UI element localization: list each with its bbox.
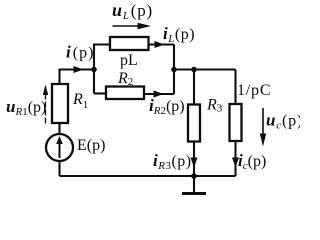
svg-text:iL(p): iL(p) — [163, 24, 195, 45]
node B dot — [171, 67, 177, 73]
arrow iL(p) — [155, 41, 165, 48]
arrow iR2(p) — [154, 91, 164, 98]
wire R3 top stub — [193, 70, 195, 105]
arrow i(p) — [74, 66, 84, 73]
wire R3 bottom — [193, 142, 195, 177]
resistor R3 — [188, 105, 200, 142]
svg-text:ic(p): ic(p) — [238, 151, 266, 172]
node ground dot — [191, 173, 197, 179]
svg-text:uc(p): uc(p) — [266, 111, 300, 132]
resistor R2 — [106, 87, 144, 100]
source E arrow — [56, 136, 63, 158]
wire E top stub — [58, 123, 60, 135]
resistor R1 — [52, 84, 68, 123]
arrow ic(p) — [232, 158, 239, 168]
ground — [182, 192, 206, 195]
inductor pL — [110, 37, 149, 50]
svg-text:1/pC: 1/pC — [237, 82, 271, 99]
wire C bottom — [234, 141, 236, 176]
svg-text:E(p): E(p) — [77, 137, 105, 154]
arrow iR3(p) — [191, 158, 198, 168]
svg-text:pL: pL — [120, 52, 138, 69]
wire R2 right — [144, 93, 174, 95]
ground stub — [193, 176, 195, 192]
wire left branch bottom stub — [58, 161, 60, 176]
arrow uR1(p) — [43, 85, 48, 124]
wire pL to node B — [149, 43, 175, 45]
wire bottom rail — [60, 175, 236, 177]
source E(p) — [46, 134, 73, 161]
wire left vertical node A — [94, 45, 110, 94]
wire middle horizontal to C — [174, 68, 236, 70]
capacitor 1/pC — [230, 104, 242, 141]
node R3-top dot — [191, 67, 197, 73]
svg-text:i(p): i(p) — [66, 43, 94, 62]
node A dot — [91, 67, 97, 73]
wire C top stub — [234, 70, 236, 105]
arrow uL(p) — [113, 23, 152, 29]
wire node B vertical — [173, 45, 175, 95]
svg-text:uL(p): uL(p) — [112, 0, 153, 22]
arrow uC(p) — [260, 108, 266, 147]
wire R2 left — [94, 92, 106, 94]
wire R1 top to i(p) node — [60, 70, 95, 85]
